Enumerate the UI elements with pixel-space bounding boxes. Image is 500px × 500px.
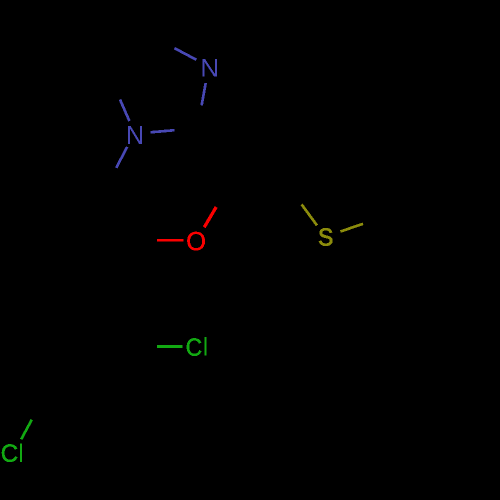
atom N3 (imidazole N) xyxy=(202,59,217,76)
bond N1-CH2 (N half) xyxy=(116,147,127,168)
atom S (thiophene) xyxy=(319,228,332,245)
bond Cl1-Car (Cl half) xyxy=(157,345,183,348)
atom O (ether) xyxy=(187,232,204,250)
bond Cl2-Car (Cl half) xyxy=(21,420,32,440)
atom Cl2 (4-chloro) xyxy=(2,444,17,462)
bond N1-C2 (N half) xyxy=(151,130,175,132)
bond N3-C2 (N half) xyxy=(202,83,206,105)
bond S-C2t (S half) xyxy=(341,224,364,232)
atom Cl1 (2-chloro) xyxy=(187,338,201,355)
bond S-C3t (S half) xyxy=(302,204,317,225)
bond C5-N1 (N half) xyxy=(120,100,129,122)
bond O-CH2 (O half) xyxy=(204,207,216,227)
atom N1 (imidazole N) xyxy=(128,126,142,144)
bond O-CH (O half) xyxy=(157,239,183,242)
bond C4-N3 (N half) xyxy=(175,48,197,60)
